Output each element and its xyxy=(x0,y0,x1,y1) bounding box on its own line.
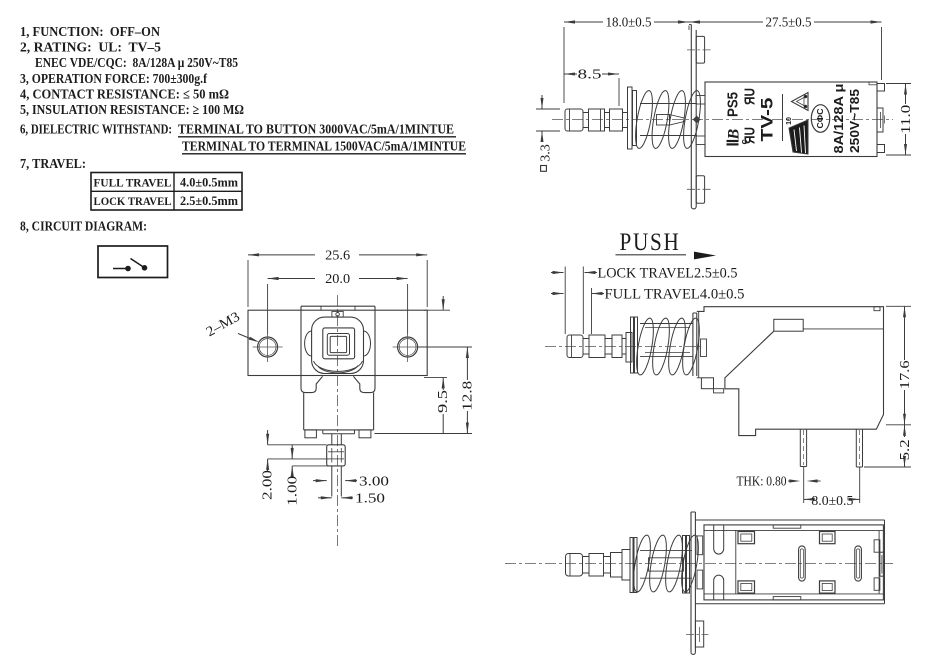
svg-text:3.00: 3.00 xyxy=(359,474,389,489)
svg-text:6, DIELECTRIC WITHSTAND:: 6, DIELECTRIC WITHSTAND: xyxy=(20,122,172,137)
svg-text:2.00: 2.00 xyxy=(261,470,276,500)
svg-text:8.5: 8.5 xyxy=(578,68,602,83)
svg-text:THK: 0.80: THK: 0.80 xyxy=(737,474,787,489)
svg-text:4.0±0.5mm: 4.0±0.5mm xyxy=(180,176,239,190)
svg-text:1.00: 1.00 xyxy=(286,476,301,506)
svg-text:3, OPERATION FORCE: 700±300g.f: 3, OPERATION FORCE: 700±300g.f xyxy=(20,71,207,86)
svg-text:8A/128A μ: 8A/128A μ xyxy=(831,83,846,153)
svg-text:250V~T85: 250V~T85 xyxy=(847,89,862,153)
svg-text:FULL TRAVEL4.0±0.5: FULL TRAVEL4.0±0.5 xyxy=(605,287,745,303)
svg-text:B: B xyxy=(726,129,743,141)
svg-text:ЯU: ЯU xyxy=(742,88,759,105)
svg-text:c: c xyxy=(739,139,750,144)
svg-text:TERMINAL TO TERMINAL 1500VAC/5: TERMINAL TO TERMINAL 1500VAC/5mA/1MINTUE xyxy=(182,139,466,154)
svg-text:20.0: 20.0 xyxy=(325,272,350,287)
svg-text:5.2: 5.2 xyxy=(898,439,913,460)
svg-text:2, RATING: UL: TV–5: 2, RATING: UL: TV–5 xyxy=(20,40,161,55)
svg-text:FULL TRAVEL: FULL TRAVEL xyxy=(94,175,172,189)
svg-text:TV-5: TV-5 xyxy=(759,98,777,142)
svg-text:PUSH: PUSH xyxy=(620,229,681,256)
svg-text:17.6: 17.6 xyxy=(898,360,913,389)
svg-text:2.5±0.5mm: 2.5±0.5mm xyxy=(180,194,239,208)
svg-text:7, TRAVEL:: 7, TRAVEL: xyxy=(20,156,86,171)
svg-text:5, INSULATION RESISTANCE: ≥ 10: 5, INSULATION RESISTANCE: ≥ 100 MΩ xyxy=(20,102,244,117)
svg-text:LOCK TRAVEL: LOCK TRAVEL xyxy=(94,194,172,208)
svg-text:CФC: CФC xyxy=(816,108,825,128)
svg-text:27.5±0.5: 27.5±0.5 xyxy=(766,16,812,31)
svg-text:ENEC VDE/CQC: 8A/128A μ 250V: ENEC VDE/CQC: 8A/128A μ 250V~T85 xyxy=(35,55,238,70)
svg-text:18.0±0.5: 18.0±0.5 xyxy=(606,16,652,31)
svg-text:PS5: PS5 xyxy=(726,92,742,117)
svg-text:4, CONTACT RESISTANCE: ≤ 50 mΩ: 4, CONTACT RESISTANCE: ≤ 50 mΩ xyxy=(20,87,229,102)
svg-text:11.0: 11.0 xyxy=(899,105,914,134)
svg-text:8.0±0.5: 8.0±0.5 xyxy=(811,494,853,509)
svg-text:1.50: 1.50 xyxy=(355,492,385,507)
svg-text:8, CIRCUIT DIAGRAM:: 8, CIRCUIT DIAGRAM: xyxy=(20,219,147,234)
svg-text:LOCK TRAVEL2.5±0.5: LOCK TRAVEL2.5±0.5 xyxy=(598,266,738,282)
svg-text:1, FUNCTION: OFF–ON: 1, FUNCTION: OFF–ON xyxy=(20,24,160,39)
svg-text:25.6: 25.6 xyxy=(325,248,350,263)
svg-text:3.3: 3.3 xyxy=(539,144,554,162)
svg-text:9.5: 9.5 xyxy=(436,390,451,413)
svg-text:10: 10 xyxy=(786,117,793,125)
svg-text:12.8: 12.8 xyxy=(461,381,476,411)
svg-text:TERMINAL TO BUTTON 3000VAC/5mA: TERMINAL TO BUTTON 3000VAC/5mA/1MINTUE xyxy=(178,122,454,137)
